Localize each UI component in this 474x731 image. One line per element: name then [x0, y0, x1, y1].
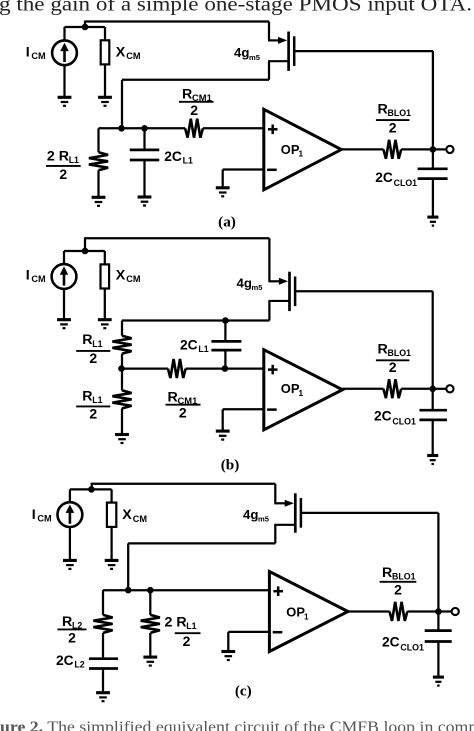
ground: minus input (c) [221, 652, 235, 661]
plus input (a) [268, 125, 278, 135]
wire: minus ground stub (b) [222, 409, 224, 430]
ground: under I_CM (b) [57, 320, 71, 329]
transistor 4g_m5 (c) lower gate wire [274, 524, 295, 526]
svg-text:2: 2 [59, 166, 67, 182]
current source I_CM (a) [52, 40, 77, 65]
wire: XCM top (c) [110, 489, 112, 502]
wire: cap bottom (a) [143, 160, 145, 196]
svg-text:2: 2 [68, 629, 76, 645]
transistor 4g_m5 (a) channel bar [293, 36, 296, 66]
wire: output cap top (b) [432, 389, 434, 410]
resistor R_L1/2 lower (b) [112, 390, 131, 408]
wire: output drop (b) [432, 291, 434, 389]
svg-text:CM: CM [133, 514, 148, 524]
capacitor 2C_L1 (a) [130, 150, 160, 160]
svg-text:L1: L1 [183, 156, 193, 166]
transistor 4g_m5 (b) lower gate wire [268, 300, 289, 302]
svg-text:R: R [82, 388, 92, 404]
label fraction /2 upper (b) [76, 350, 110, 366]
wire: output cap bottom (b) [432, 420, 434, 455]
resistor R_BLO1/2 (b) [383, 379, 401, 398]
wire: rail drop to gate arrow (b) [268, 238, 270, 281]
capacitor 2C_CLO1 (c) [425, 631, 452, 642]
node: CM sense right (c) [147, 587, 154, 594]
svg-text:2C: 2C [374, 408, 392, 423]
wire: minus ground stub (a) [222, 170, 224, 188]
svg-text:BLO1: BLO1 [388, 348, 412, 358]
label I_CM (c) [32, 507, 52, 524]
wire: ICM bottom (a) [63, 65, 65, 96]
label 2C_L2 (c) [56, 653, 85, 670]
capacitor 2C_CLO1 (a) [418, 169, 448, 179]
wire: drain to output (a) [294, 50, 433, 52]
wire: minus input (b) [223, 408, 264, 410]
label OP_1 (a) [281, 142, 304, 159]
wire: rail drop to gate arrow (a) [268, 22, 270, 41]
wire: drain to output (b) [295, 290, 433, 292]
svg-text:m5: m5 [252, 283, 264, 292]
svg-text:1: 1 [304, 612, 309, 621]
svg-text:I: I [26, 267, 30, 283]
wire: top rail (b) [85, 237, 269, 239]
svg-text:OP: OP [281, 381, 300, 396]
svg-text:L1: L1 [186, 621, 196, 631]
wire: op-amp output (a) [341, 148, 383, 150]
node: supply junction (c) [88, 486, 95, 493]
ground: minus input (a) [216, 188, 230, 197]
ground: under 2R_L1 (a) [92, 197, 106, 206]
wire: left branch mid (c) [102, 633, 104, 659]
svg-text:X: X [116, 267, 126, 283]
label X_CM (a) [116, 45, 141, 62]
svg-text:L1: L1 [92, 339, 102, 349]
svg-text:R: R [378, 342, 388, 358]
svg-text:CM: CM [37, 514, 52, 524]
wire: load res top (a) [97, 128, 99, 152]
ground: under 2C_L1 (a) [138, 197, 152, 206]
resistor R_CM1/2 (a) [185, 119, 203, 138]
ground: under 2C_CLO1 (a) [427, 217, 438, 226]
transistor 4g_m5 (a) gate bar [287, 32, 290, 71]
resistor 2R_L1/2 (c) [141, 615, 160, 633]
plus input (b) [268, 365, 278, 375]
svg-text:X: X [122, 507, 132, 523]
label fraction /2 of R_CM1 (b) [166, 404, 201, 420]
wire: ICM-XCM link (a) [65, 26, 106, 28]
svg-text:2: 2 [394, 582, 402, 598]
wire: feedback to node (a) [121, 80, 123, 129]
svg-text:L1: L1 [92, 395, 102, 405]
transistor 4g_m5 (b) gate bar [288, 272, 291, 311]
svg-text:g the gain of a simple one-sta: g the gain of a simple one-stage PMOS in… [0, 0, 472, 15]
label R_BLO1 (c) [382, 565, 416, 582]
wire: XCM bottom (a) [104, 64, 106, 96]
wire: column below mid (b) [121, 369, 123, 391]
svg-text:2C: 2C [382, 634, 400, 649]
wire: feedback to node (c) [127, 543, 129, 590]
minus input (b) [267, 408, 277, 411]
wire: drain to output (c) [301, 512, 439, 514]
current source I_CM (c) [58, 502, 83, 527]
svg-text:CM: CM [126, 274, 141, 284]
label I_CM (b) [26, 267, 46, 284]
wire: feedback horizontal (a) [122, 79, 269, 81]
wire: ICM top (b) [63, 251, 65, 265]
output terminal (a) [446, 146, 453, 153]
node: cap tap top (b) [222, 317, 229, 324]
svg-text:m5: m5 [258, 515, 270, 524]
node: mid column (b) [118, 365, 125, 372]
node: CM sense left (c) [125, 587, 132, 594]
wire: gate feedback drop (c) [274, 525, 276, 544]
wire: output drop (c) [437, 513, 439, 612]
minus input (a) [267, 169, 277, 172]
wire: top node horizontal (b) [122, 319, 269, 321]
wire: cap top (b) [224, 321, 226, 342]
ground: under 2R_L1 (c) [143, 657, 157, 666]
node: output (b) [429, 386, 436, 393]
wire: XCM top (a) [104, 27, 106, 40]
svg-text:CM: CM [31, 51, 46, 61]
svg-text:(b): (b) [221, 456, 240, 473]
label X_CM (c) [122, 507, 147, 524]
wire: output cap top (c) [437, 612, 439, 631]
node: output (a) [430, 146, 437, 153]
wire: to output node (a) [401, 148, 433, 150]
svg-text:ure 2. The simplified equivale: ure 2. The simplified equivalent circuit… [0, 719, 474, 731]
wire: ICM top (c) [69, 489, 71, 502]
transistor 4g_m5 (c) gate arrow [274, 500, 294, 507]
wire: to output node (c) [407, 610, 438, 612]
svg-text:2: 2 [389, 359, 397, 375]
wire: cap top (a) [143, 128, 145, 150]
ground: under 2C_CLO1 (b) [427, 456, 438, 465]
svg-text:R: R [182, 86, 192, 102]
label 2C_L1 (a) [164, 149, 193, 166]
label R_CM1 (b) [168, 390, 198, 407]
wire: output cap top (a) [432, 149, 434, 168]
svg-text:OP: OP [286, 605, 305, 620]
wire: right branch bottom (c) [149, 633, 151, 656]
output terminal (c) [452, 608, 459, 615]
wire: ICM bottom (b) [63, 289, 65, 319]
svg-text:2: 2 [89, 350, 97, 366]
svg-text:R: R [82, 332, 92, 348]
ground: under X_CM (a) [98, 97, 112, 106]
label 2C_L1 (b) [180, 337, 209, 354]
resistor R_L2/2 (c) [93, 615, 112, 633]
impedance X_CM (b) [101, 264, 110, 288]
wire: op-amp output (b) [343, 388, 384, 390]
wire: rail drop to gate arrow (c) [274, 484, 276, 504]
label fraction /2 of R_BLO1 (b) [376, 359, 410, 375]
svg-text:2C: 2C [180, 337, 198, 352]
label OP_1 (c) [286, 605, 309, 622]
minus input (c) [273, 631, 283, 634]
svg-text:R: R [378, 102, 388, 118]
capacitor 2C_L2 (c) [89, 659, 118, 669]
wire: to terminal (c) [438, 610, 452, 612]
svg-text:BLO1: BLO1 [392, 572, 416, 582]
wire: load res bottom (a) [97, 170, 99, 196]
wire: to terminal (b) [433, 388, 447, 390]
svg-text:CLO1: CLO1 [394, 178, 418, 188]
svg-text:2C: 2C [375, 170, 393, 185]
wire: rail stub (c) [91, 483, 93, 490]
resistor R_BLO1/2 (a) [383, 140, 401, 159]
wire: minus input (c) [228, 631, 269, 633]
wire: ICM top (a) [63, 27, 65, 41]
label X_CM (b) [116, 267, 141, 284]
op-amp OP_1 (c) [269, 572, 348, 652]
wire: output drop (a) [432, 51, 434, 149]
label I_CM (a) [26, 45, 46, 62]
wire: column bottom (b) [121, 408, 123, 433]
label 2C_CLO1 (b) [374, 408, 416, 426]
svg-text:OP: OP [281, 142, 300, 157]
svg-text:4g: 4g [237, 275, 252, 290]
wire: mid node to op-amp + (b) [186, 367, 264, 369]
label 2R_L1 (c) [165, 614, 197, 631]
svg-text:(a): (a) [218, 213, 236, 230]
wire: left branch bottom (c) [102, 669, 104, 692]
wire: gate feedback drop (a) [268, 61, 270, 80]
ground: minus input (b) [216, 431, 230, 440]
current source I_CM (b) [52, 264, 77, 289]
wire: column mid (b) [121, 354, 123, 369]
svg-text:2C: 2C [164, 149, 182, 164]
svg-text:I: I [26, 45, 30, 61]
label fraction /2 of R_CM1 (a) [179, 102, 214, 118]
svg-text:4g: 4g [243, 507, 258, 522]
svg-text:L2: L2 [74, 660, 84, 670]
svg-text:CLO1: CLO1 [400, 642, 424, 652]
wire: output cap bottom (a) [432, 179, 434, 217]
wire: to op-amp + (a) [203, 127, 264, 129]
svg-text:L1: L1 [198, 344, 208, 354]
wire: mid node left (b) [122, 367, 168, 369]
wire: minus ground stub (c) [227, 632, 229, 651]
svg-text:2: 2 [190, 102, 198, 118]
transistor 4g_m5 (a) gate arrow [268, 37, 287, 44]
transistor 4g_m5 (b) gate arrow [268, 278, 288, 285]
transistor 4g_m5 (b) channel bar [294, 277, 297, 307]
label R_L1 lower (b) [82, 388, 102, 405]
svg-text:2 R: 2 R [165, 614, 187, 630]
svg-text:(c): (c) [235, 683, 252, 700]
svg-text:CM: CM [31, 274, 46, 284]
wire: to terminal (a) [433, 148, 447, 150]
label R_L1 upper (b) [82, 332, 102, 349]
wire: right branch top (c) [149, 590, 151, 615]
svg-text:2: 2 [89, 405, 97, 421]
node: supply junction (a) [82, 24, 89, 31]
wire: CM node (c) [103, 589, 269, 591]
wire: ICM-XCM link (b) [64, 250, 105, 252]
wire: CM node (a) [99, 127, 186, 129]
label 2C_CLO1 (a) [375, 170, 417, 188]
wire: column top (b) [121, 321, 123, 336]
impedance X_CM (c) [107, 503, 116, 527]
wire: rail stub (b) [84, 237, 86, 251]
label 4g_m5 (c) [243, 507, 270, 524]
wire: top rail (a) [85, 20, 269, 22]
impedance X_CM (a) [101, 40, 110, 64]
wire: cap bottom (b) [224, 350, 226, 369]
wire: rail stub (a) [84, 21, 86, 28]
svg-text:m5: m5 [249, 53, 261, 62]
ground: under X_CM (c) [105, 560, 119, 569]
ground: under 2C_L2 (c) [96, 693, 110, 702]
resistor 2R_L1/2 (a) [89, 152, 108, 170]
svg-text:2: 2 [389, 119, 397, 135]
ground: under I_CM (c) [63, 560, 77, 569]
transistor 4g_m5 (c) channel bar [300, 498, 303, 528]
wire: ICM-XCM link (c) [70, 488, 112, 490]
wire: op-amp output (c) [348, 610, 390, 612]
svg-text:BLO1: BLO1 [388, 108, 412, 118]
wire: to output node (b) [401, 388, 433, 390]
label R_CM1 (a) [182, 86, 212, 103]
node: CM sense right (a) [141, 125, 148, 132]
svg-text:1: 1 [299, 389, 304, 398]
svg-text:X: X [116, 45, 126, 61]
svg-text:4g: 4g [234, 45, 249, 60]
label fraction /2 lower (b) [76, 405, 110, 421]
svg-text:CM: CM [126, 51, 141, 61]
wire: minus input (a) [223, 168, 264, 170]
wire: XCM bottom (b) [104, 289, 106, 319]
label R_BLO1 (b) [378, 342, 412, 359]
svg-text:2: 2 [183, 633, 191, 649]
label fraction /2 of R_BLO1 (c) [380, 582, 417, 598]
ground: under 2C_CLO1 (c) [433, 677, 444, 686]
svg-text:1: 1 [299, 150, 304, 159]
svg-text:2 R: 2 R [47, 148, 69, 164]
transistor 4g_m5 (c) gate bar [294, 493, 297, 532]
label OP_1 (b) [281, 381, 304, 398]
svg-text:R: R [168, 390, 178, 406]
svg-text:R: R [382, 565, 392, 581]
node: CM sense left (a) [118, 125, 125, 132]
svg-text:L1: L1 [69, 155, 79, 165]
svg-text:CLO1: CLO1 [392, 416, 416, 426]
wire: output cap bottom (c) [437, 642, 439, 677]
wire: XCM bottom (c) [110, 527, 112, 560]
resistor R_L1/2 upper (b) [112, 336, 131, 354]
wire: XCM top (b) [104, 251, 106, 264]
wire: top rail (c) [92, 483, 276, 485]
label 4g_m5 (b) [237, 275, 264, 292]
transistor 4g_m5 (a) lower gate wire [268, 60, 289, 62]
label R_BLO1 (a) [378, 102, 412, 119]
label fraction /2 of 2R_L1 (a) [46, 166, 81, 182]
capacitor 2C_L1 (b) [211, 341, 241, 350]
ground: under column (b) [115, 435, 129, 444]
label 2R_L1 (a) [47, 148, 79, 165]
plus input (c) [273, 586, 283, 596]
label 2C_CLO1 (c) [382, 634, 424, 652]
node: supply junction (b) [82, 248, 89, 255]
ground: under X_CM (b) [98, 320, 112, 329]
node: cap tap bottom (b) [222, 365, 229, 372]
svg-text:R: R [62, 614, 72, 630]
svg-text:2: 2 [179, 404, 187, 420]
svg-text:I: I [32, 507, 36, 523]
wire: left branch top (c) [102, 590, 104, 615]
node: output (c) [435, 608, 442, 615]
resistor R_BLO1/2 (c) [390, 602, 408, 621]
svg-text:2C: 2C [56, 653, 74, 668]
label fraction /2 of R_L2 (c) [58, 629, 87, 645]
label fraction /2 of R_BLO1 (a) [376, 119, 410, 135]
output terminal (b) [446, 385, 453, 392]
op-amp OP_1 (b) [264, 350, 343, 430]
resistor R_CM1/2 (b) [168, 359, 186, 378]
wire: ICM bottom (c) [69, 527, 71, 560]
label 4g_m5 (a) [234, 45, 261, 62]
wire: feedback horizontal (c) [128, 542, 275, 544]
op-amp OP_1 (a) [264, 109, 342, 190]
ground: under I_CM (a) [58, 97, 72, 106]
label fraction /2 of 2R_L1 (c) [175, 633, 201, 649]
label R_L2 (c) [62, 614, 82, 631]
capacitor 2C_CLO1 (b) [419, 410, 447, 420]
wire: gate feedback drop (b) [268, 301, 270, 321]
